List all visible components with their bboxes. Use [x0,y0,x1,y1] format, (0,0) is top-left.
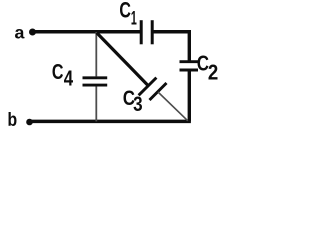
capacitor C3 second plate [150,83,167,100]
node a terminal dot [29,29,36,36]
capacitor C4 top plate [83,76,108,79]
wire: thin diagonal from C3 second plate to bottom-right corner [158,92,188,121]
capacitor C2 top plate [180,60,199,63]
wire: C4 branch lower thin segment to bottom wire [95,86,97,121]
node b terminal dot [26,119,33,126]
node a label [15,29,25,39]
label C2 [198,56,209,71]
wire: C1 right plate to top-right corner then down to C2 top plate [152,32,189,62]
capacitor C1 right plate [151,20,154,44]
capacitor C3 first plate [139,78,157,96]
wire: thick diagonal from junction to C3 first plate [97,33,149,86]
wire: bottom from node b to bottom-right corner [30,120,191,124]
wire: C4 branch upper thin segment from junction [95,32,97,76]
capacitor C2 bottom plate [180,69,199,72]
wire: C2 bottom plate down to bottom-right corner [188,70,191,121]
label C3 [124,91,135,106]
label C4 [52,64,62,79]
label C1 [120,2,130,18]
node b label [8,112,16,126]
capacitor C4 bottom plate [83,84,108,87]
capacitor C1 left plate [140,20,143,44]
wire: top from node a through junction to C1 left plate [32,30,141,33]
